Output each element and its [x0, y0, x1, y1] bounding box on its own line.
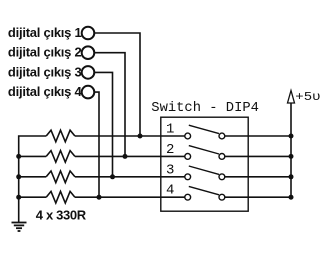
- node bus5v/row2: [289, 154, 294, 159]
- svg-text:Switch - DIP4: Switch - DIP4: [151, 100, 259, 116]
- resistor R2: [46, 151, 75, 163]
- terminal circle output 3: [82, 66, 95, 79]
- node bus/row4: [16, 195, 21, 200]
- resistor R3: [46, 171, 75, 183]
- wire output1 to row1: [95, 33, 140, 134]
- switch 2 lever: [189, 146, 219, 154]
- wire row4 to switch: [75, 196, 185, 198]
- svg-text:1: 1: [166, 122, 174, 138]
- svg-text:2: 2: [166, 142, 174, 158]
- wire left bus to R4: [19, 196, 47, 198]
- switch 1 left pin: [185, 133, 191, 139]
- switch 4 left pin: [185, 194, 191, 200]
- wire switch1 to +5v bus: [225, 135, 291, 137]
- node bus/row3: [16, 174, 21, 179]
- wire left bus to R3: [19, 176, 47, 178]
- wire switch4 to +5v bus: [225, 196, 291, 198]
- wire output4 to row4: [95, 92, 99, 195]
- wire row3 to switch: [75, 176, 185, 178]
- switch 2 right pin: [219, 154, 225, 160]
- svg-text:3: 3: [166, 162, 174, 178]
- wire switch3 to +5v bus: [225, 176, 291, 178]
- svg-text:dijital çıkış 3: dijital çıkış 3: [8, 64, 82, 79]
- +5v arrow: [288, 91, 295, 104]
- svg-text:dijital çıkış 4: dijital çıkış 4: [8, 84, 83, 99]
- svg-text:dijital çıkış 1: dijital çıkış 1: [8, 25, 82, 40]
- node row2/output2 junction: [123, 154, 128, 159]
- switch 3 right pin: [219, 174, 225, 180]
- switch 1 lever: [189, 125, 219, 133]
- DIP switch box U1: [161, 117, 248, 211]
- resistor R4: [46, 191, 75, 203]
- node row4/output4 junction: [97, 195, 102, 200]
- switch 4 right pin: [219, 194, 225, 200]
- svg-text:4 x 330R: 4 x 330R: [36, 208, 87, 223]
- left ground bus: [19, 136, 47, 223]
- wire left bus to R2: [19, 155, 47, 157]
- svg-text:4: 4: [166, 183, 174, 199]
- wire row1 to switch: [75, 135, 185, 137]
- switch 2 left pin: [185, 154, 191, 160]
- terminal circle output 2: [82, 46, 95, 59]
- node bus5v/row1: [289, 134, 294, 139]
- wire output2 to row2: [95, 53, 125, 155]
- resistor R1: [46, 130, 75, 142]
- wire row2 to switch: [75, 155, 185, 157]
- svg-text:dijital çıkış 2: dijital çıkış 2: [8, 45, 82, 60]
- ground: [12, 223, 27, 232]
- node row1/output1 junction: [138, 134, 143, 139]
- switch 3 lever: [189, 166, 219, 174]
- terminal circle output 4: [82, 86, 95, 99]
- wire output3 to row3: [95, 72, 113, 175]
- wire switch2 to +5v bus: [225, 155, 291, 157]
- +5v bus wire: [290, 103, 292, 197]
- node bus/row2: [16, 154, 21, 159]
- switch 1 right pin: [219, 133, 225, 139]
- node row3/output3 junction: [110, 174, 115, 179]
- svg-text:+5υ: +5υ: [295, 90, 320, 104]
- switch 3 left pin: [185, 174, 191, 180]
- terminal circle output 1: [82, 27, 95, 40]
- node bus5v/row4: [289, 195, 294, 200]
- switch 4 lever: [189, 186, 219, 194]
- node bus5v/row3: [289, 174, 294, 179]
